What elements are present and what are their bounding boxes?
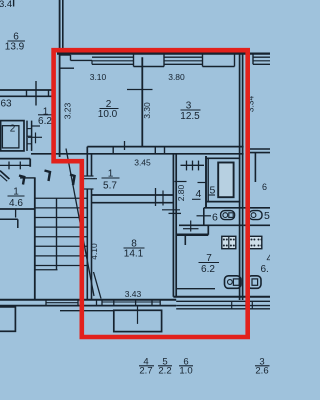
svg-text:13.9: 13.9 [5,42,25,53]
svg-text:3.4: 3.4 [0,0,12,10]
svg-text:2.7: 2.7 [139,366,152,377]
svg-text:5: 5 [264,210,270,222]
svg-text:1.0: 1.0 [179,366,192,377]
svg-text:3.10: 3.10 [90,72,107,82]
svg-text:6.: 6. [261,264,269,275]
svg-text:14.1: 14.1 [124,249,144,260]
svg-text:3.30: 3.30 [142,102,152,119]
svg-text:2.2: 2.2 [158,366,171,377]
svg-text:4: 4 [196,188,202,200]
svg-text:6.2: 6.2 [201,264,215,275]
svg-text:5.7: 5.7 [103,181,117,192]
svg-text:6: 6 [262,182,267,192]
svg-text:2.80: 2.80 [176,184,186,201]
svg-text:12.5: 12.5 [180,111,200,122]
svg-text:63: 63 [1,99,13,110]
svg-text:4.10: 4.10 [89,243,99,260]
svg-text:2.6: 2.6 [255,366,268,377]
svg-text:10.0: 10.0 [98,109,118,120]
svg-text:6.2: 6.2 [38,116,52,127]
svg-text:6: 6 [212,212,218,224]
svg-text:4.6: 4.6 [9,198,23,209]
svg-text:3.43: 3.43 [125,289,142,299]
svg-text:4: 4 [267,254,271,265]
svg-text:2: 2 [10,124,16,135]
svg-text:3.80: 3.80 [168,72,185,82]
svg-text:3.45: 3.45 [134,157,151,167]
svg-text:3.23: 3.23 [63,102,73,119]
